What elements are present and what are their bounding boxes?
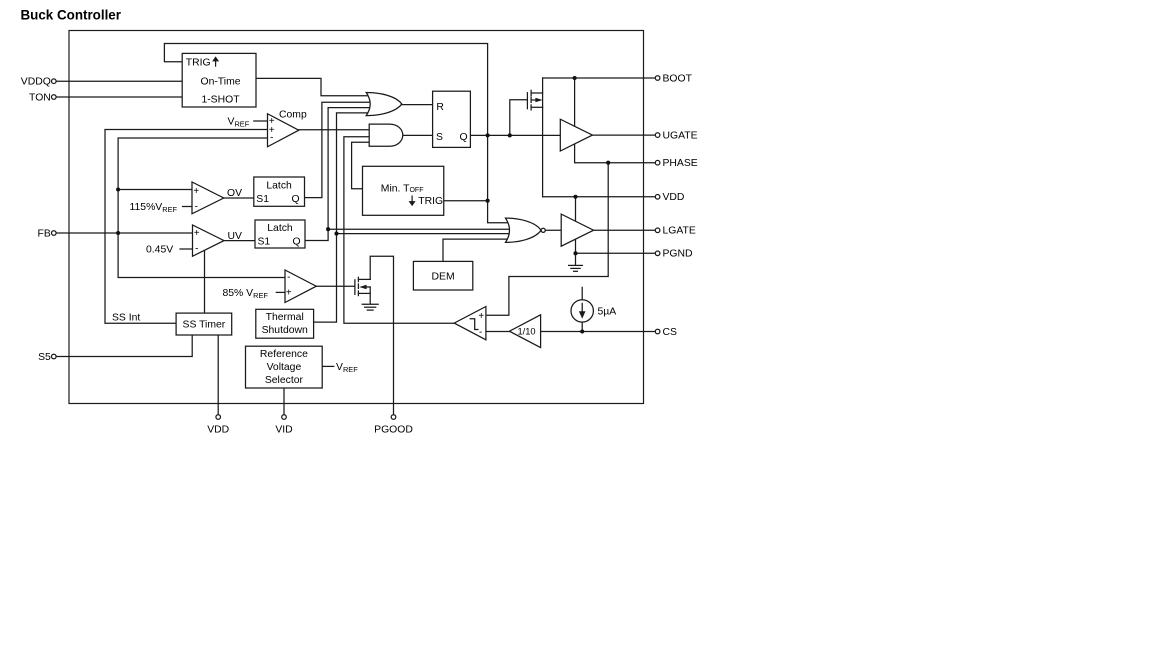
svg-text:VDDQ: VDDQ — [21, 77, 51, 88]
svg-text:-: - — [195, 243, 198, 254]
svg-text:S5: S5 — [38, 352, 51, 363]
svg-text:SS Int: SS Int — [112, 312, 140, 323]
svg-text:Thermal: Thermal — [266, 312, 304, 323]
svg-text:1/10: 1/10 — [517, 327, 535, 337]
svg-text:-: - — [195, 202, 198, 213]
svg-text:OV: OV — [227, 188, 242, 199]
svg-text:PGOOD: PGOOD — [374, 425, 413, 436]
svg-text:Selector: Selector — [265, 375, 304, 386]
svg-text:DEM: DEM — [432, 272, 455, 283]
svg-text:LGATE: LGATE — [663, 226, 696, 237]
svg-text:Latch: Latch — [266, 180, 292, 191]
svg-text:5µA: 5µA — [598, 306, 617, 317]
svg-text:CS: CS — [663, 327, 678, 338]
svg-text:115%VREF: 115%VREF — [130, 202, 178, 214]
svg-text:Shutdown: Shutdown — [262, 325, 308, 336]
svg-text:+: + — [194, 228, 200, 239]
svg-text:VDD: VDD — [663, 192, 685, 203]
svg-text:+: + — [193, 186, 199, 197]
svg-text:S: S — [436, 132, 443, 143]
svg-text:+: + — [286, 288, 292, 299]
svg-text:+: + — [478, 311, 484, 322]
svg-text:On-Time: On-Time — [200, 77, 240, 88]
svg-text:VREF: VREF — [336, 362, 358, 374]
svg-text:VDD: VDD — [207, 425, 229, 436]
svg-text:-: - — [479, 327, 482, 338]
svg-text:VID: VID — [275, 425, 292, 436]
svg-text:R: R — [436, 102, 444, 113]
svg-text:1-SHOT: 1-SHOT — [201, 95, 240, 106]
svg-text:85% VREF: 85% VREF — [223, 288, 269, 300]
svg-text:Buck Controller: Buck Controller — [21, 8, 122, 23]
svg-text:Q: Q — [460, 132, 468, 143]
svg-text:Comp: Comp — [279, 109, 307, 120]
svg-text:-: - — [270, 133, 273, 144]
svg-text:PHASE: PHASE — [663, 158, 698, 169]
svg-text:Q: Q — [292, 194, 300, 205]
svg-text:0.45V: 0.45V — [146, 244, 173, 255]
svg-text:TRIG: TRIG — [418, 196, 443, 207]
svg-text:TRIG: TRIG — [186, 57, 211, 68]
svg-text:S1: S1 — [258, 237, 271, 248]
svg-text:Latch: Latch — [267, 223, 293, 234]
svg-text:PGND: PGND — [663, 249, 693, 260]
svg-text:Reference: Reference — [260, 349, 308, 360]
svg-text:FB: FB — [38, 228, 51, 239]
svg-text:Voltage: Voltage — [267, 362, 302, 373]
svg-text:SS Timer: SS Timer — [183, 319, 226, 330]
svg-text:UV: UV — [228, 231, 243, 242]
svg-text:VREF: VREF — [228, 116, 250, 128]
svg-text:TON: TON — [29, 92, 51, 103]
svg-text:-: - — [287, 272, 290, 283]
svg-text:UGATE: UGATE — [663, 131, 698, 142]
svg-text:BOOT: BOOT — [663, 73, 693, 84]
svg-text:S1: S1 — [256, 194, 269, 205]
svg-text:Q: Q — [293, 237, 301, 248]
